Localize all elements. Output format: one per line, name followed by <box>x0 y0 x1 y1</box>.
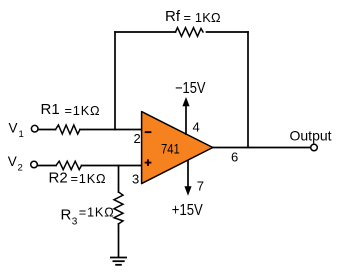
svg-text:741: 741 <box>161 142 180 157</box>
resistor R1 <box>56 125 81 134</box>
ground <box>110 258 127 265</box>
svg-text:V: V <box>9 121 18 136</box>
resistor R3 <box>114 192 123 224</box>
svg-text:3: 3 <box>72 217 78 228</box>
svg-text:= 1KΩ: = 1KΩ <box>184 10 221 25</box>
wire R1 to pin 2 <box>80 129 142 131</box>
wire output <box>213 147 311 149</box>
wire R2 to pin 3 <box>82 165 142 167</box>
label R1 value <box>41 101 101 118</box>
svg-text:6: 6 <box>231 150 238 165</box>
label R3 value <box>61 205 115 228</box>
svg-text:R: R <box>61 206 72 223</box>
svg-text:R1: R1 <box>41 101 60 118</box>
svg-text:4: 4 <box>193 119 200 134</box>
label Rf value <box>165 8 221 25</box>
wire feedback left vertical <box>114 32 116 130</box>
wire feedback top-left segment <box>115 31 176 33</box>
svg-text:Output: Output <box>290 128 332 144</box>
terminal V2 <box>31 161 38 168</box>
wire V2 to R2 <box>38 165 56 167</box>
terminal V1 <box>31 125 38 132</box>
svg-text:2: 2 <box>134 131 141 146</box>
label V1 <box>9 121 24 141</box>
svg-text:V: V <box>8 154 17 169</box>
wire feedback top-right segment <box>207 31 249 33</box>
wire feedback right vertical <box>247 32 249 148</box>
op-amp minus sign <box>145 131 152 133</box>
svg-text:=1KΩ: =1KΩ <box>65 103 101 118</box>
svg-text:=1KΩ: =1KΩ <box>79 205 115 220</box>
svg-text:3: 3 <box>132 172 139 187</box>
wire R3 to ground <box>118 224 120 257</box>
svg-text:+15V: +15V <box>172 202 204 219</box>
svg-text:2: 2 <box>18 162 23 173</box>
svg-text:R2: R2 <box>49 169 68 186</box>
svg-text:−15V: −15V <box>175 80 206 97</box>
wire node to R3 <box>118 166 120 193</box>
label V2 <box>8 154 23 173</box>
svg-text:=1KΩ: =1KΩ <box>71 171 107 186</box>
svg-text:1: 1 <box>19 129 24 140</box>
label R2 value <box>49 169 107 186</box>
op-amp U1 (741) <box>142 112 213 184</box>
svg-text:Rf: Rf <box>165 8 181 25</box>
power arrow down (pin 7) <box>184 160 191 196</box>
op-amp plus sign <box>145 159 152 166</box>
power arrow up (pin 4) <box>182 97 189 135</box>
wire V1 to R1 <box>38 129 55 131</box>
terminal Output <box>311 144 318 151</box>
svg-text:7: 7 <box>197 178 204 193</box>
resistor R2 <box>56 161 82 169</box>
resistor Rf <box>176 28 204 37</box>
